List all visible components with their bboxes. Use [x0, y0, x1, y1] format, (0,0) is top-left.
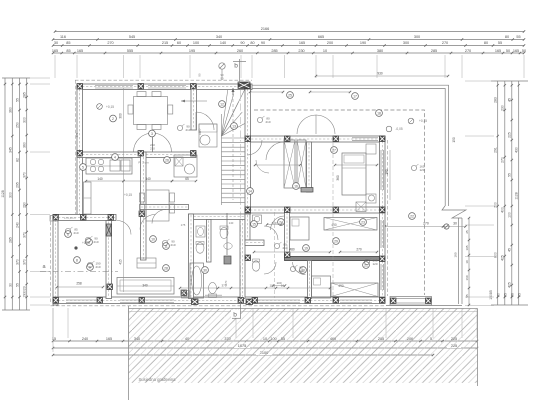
svg-text:80: 80 — [505, 35, 509, 39]
svg-text:90: 90 — [198, 73, 202, 77]
svg-text:165: 165 — [77, 49, 83, 53]
svg-text:P: 3 cm: P: 3 cm — [138, 161, 149, 165]
svg-text:55: 55 — [516, 35, 520, 39]
svg-text:18: 18 — [377, 111, 381, 115]
lower-left room wall — [106, 221, 112, 299]
entrance arrow — [232, 88, 234, 95]
svg-text:100: 100 — [269, 284, 274, 288]
svg-text:10: 10 — [323, 49, 327, 53]
wardrobe2 — [331, 283, 378, 297]
svg-text:L=6,10 m: L=6,10 m — [64, 216, 76, 220]
svg-text:270: 270 — [501, 157, 505, 163]
hall wall vertical — [240, 214, 245, 299]
svg-text:370: 370 — [16, 259, 20, 265]
dimension extension lines — [30, 55, 524, 352]
svg-text:285: 285 — [8, 237, 12, 243]
roof overhang dashed line — [254, 110, 425, 295]
svg-text:210: 210 — [95, 265, 100, 269]
svg-text:160: 160 — [465, 275, 469, 280]
svg-text:120: 120 — [419, 168, 424, 172]
svg-text:65: 65 — [185, 177, 189, 181]
svg-text:340: 340 — [142, 284, 148, 288]
svg-text:210: 210 — [265, 120, 270, 124]
svg-text:56: 56 — [510, 293, 514, 297]
utility L wall v — [245, 214, 250, 240]
shelf lower-left — [50, 216, 58, 222]
svg-text:55: 55 — [503, 293, 507, 297]
svg-text:55: 55 — [16, 283, 20, 287]
svg-text:165: 165 — [495, 49, 501, 53]
svg-text:270: 270 — [423, 222, 429, 226]
svg-text:28: 28 — [164, 266, 168, 270]
svg-text:100: 100 — [271, 221, 276, 225]
svg-text:380: 380 — [377, 49, 383, 53]
double door living — [134, 133, 172, 152]
left dimension rulers — [1, 78, 30, 310]
svg-text:b: b — [233, 312, 237, 319]
svg-text:230: 230 — [298, 49, 304, 53]
svg-text:b: b — [234, 63, 238, 70]
closet wall — [307, 142, 312, 192]
svg-text:665: 665 — [318, 35, 324, 39]
svg-text:480: 480 — [289, 248, 295, 252]
svg-text:340: 340 — [145, 177, 151, 181]
svg-text:210: 210 — [185, 128, 190, 132]
top dimension rulers — [52, 27, 526, 54]
svg-text:295: 295 — [16, 182, 20, 188]
svg-text:240: 240 — [16, 222, 20, 228]
outer face line left upper — [75, 80, 77, 214]
outer face line bottom — [51, 305, 387, 307]
svg-text:29: 29 — [334, 239, 338, 243]
svg-text:55: 55 — [465, 294, 469, 298]
svg-text:3: 3 — [151, 132, 153, 136]
svg-text:2166: 2166 — [261, 27, 269, 31]
svg-text:90: 90 — [261, 41, 265, 45]
svg-text:800: 800 — [494, 252, 498, 258]
kitchen cabinet strip — [84, 182, 92, 214]
stair west wall — [191, 84, 197, 130]
svg-text:340: 340 — [216, 35, 222, 39]
closet tall 2 — [297, 140, 306, 188]
svg-text:100: 100 — [198, 128, 202, 133]
svg-text:12: 12 — [220, 102, 224, 106]
wc2 sink — [224, 243, 232, 249]
svg-text:14: 14 — [248, 189, 252, 193]
svg-text:300: 300 — [414, 35, 420, 39]
svg-text:490: 490 — [331, 223, 337, 227]
windows — [66, 86, 384, 303]
svg-text:250: 250 — [16, 122, 20, 128]
bath divider — [207, 220, 212, 263]
svg-text:193023: 193023 — [23, 286, 27, 297]
outer face line top — [75, 79, 252, 81]
bath top wall — [189, 214, 246, 220]
svg-text:80: 80 — [484, 41, 488, 45]
svg-text:165: 165 — [513, 49, 519, 53]
svg-text:930: 930 — [377, 72, 383, 76]
terrace boundary — [252, 85, 470, 306]
dark shower block — [224, 256, 231, 264]
svg-text:55: 55 — [517, 293, 521, 297]
svg-text:490: 490 — [338, 284, 344, 288]
svg-text:270: 270 — [442, 41, 448, 45]
utility wc — [252, 261, 260, 271]
svg-text:90: 90 — [240, 41, 244, 45]
wc2 toilet — [220, 228, 228, 239]
svg-text:30: 30 — [496, 293, 500, 297]
utility L wall h — [245, 240, 264, 246]
desk middle room — [137, 258, 156, 268]
svg-text:285: 285 — [23, 92, 27, 98]
bedroom1 west wall — [285, 212, 290, 257]
svg-text:140: 140 — [97, 177, 103, 181]
reference dashed line — [274, 212, 276, 298]
svg-text:370: 370 — [75, 132, 79, 137]
svg-text:1128: 1128 — [1, 190, 5, 197]
svg-text:17: 17 — [353, 94, 357, 98]
svg-text:400: 400 — [501, 207, 505, 213]
svg-text:25: 25 — [465, 230, 469, 234]
wall columns — [53, 82, 385, 305]
sofa — [117, 278, 174, 295]
svg-text:210: 210 — [282, 246, 287, 250]
boiler circle2 — [369, 195, 375, 201]
svg-text:25: 25 — [288, 93, 292, 97]
kitchen counter — [86, 158, 132, 174]
svg-text:80: 80 — [250, 41, 254, 45]
bath divider 2 — [226, 213, 228, 255]
door swing arcs — [117, 112, 335, 275]
bath toilet2 — [209, 283, 217, 294]
svg-text:270: 270 — [107, 41, 113, 45]
svg-text:300: 300 — [8, 192, 12, 198]
svg-text:23: 23 — [361, 220, 365, 224]
svg-text:370: 370 — [23, 232, 27, 238]
svg-text:50: 50 — [506, 49, 510, 53]
svg-text:82: 82 — [16, 158, 20, 162]
wardrobe1 — [324, 218, 377, 231]
svg-text:13: 13 — [232, 124, 236, 128]
section marker b bottom — [231, 300, 241, 319]
svg-text:-0,05: -0,05 — [395, 127, 402, 131]
svg-text:55: 55 — [508, 173, 512, 177]
svg-text:+0,15: +0,15 — [106, 105, 114, 109]
svg-text:240: 240 — [82, 337, 88, 341]
left wall upper — [77, 84, 83, 216]
left wall lower — [53, 215, 58, 306]
svg-text:85: 85 — [66, 49, 70, 53]
svg-text:16: 16 — [294, 184, 298, 188]
bath toilet — [196, 243, 204, 254]
room number circles — [65, 92, 416, 274]
svg-text:175: 175 — [181, 223, 186, 227]
section marker a — [40, 264, 118, 272]
svg-text:165: 165 — [299, 41, 305, 45]
stair east wall — [245, 84, 251, 214]
svg-text:+0,15: +0,15 — [124, 193, 132, 197]
bedrooms divider H5 — [285, 257, 385, 261]
svg-text:45: 45 — [508, 248, 512, 252]
nightstands — [366, 144, 376, 154]
lower table — [140, 190, 175, 221]
svg-text:22: 22 — [410, 214, 414, 218]
svg-text:165: 165 — [106, 337, 112, 341]
bed top-right — [342, 153, 366, 195]
svg-text:55: 55 — [498, 41, 502, 45]
reference dashed line 2 — [332, 142, 334, 296]
svg-text:190: 190 — [360, 41, 366, 45]
svg-text:370: 370 — [23, 259, 27, 265]
svg-text:100: 100 — [508, 212, 512, 218]
outer face line right — [386, 140, 388, 296]
svg-text:345: 345 — [8, 147, 12, 153]
right wall — [380, 136, 386, 297]
right dimension rulers — [489, 81, 528, 305]
svg-text:116: 116 — [60, 35, 66, 39]
svg-text:15: 15 — [52, 337, 56, 341]
bath left wall — [189, 214, 194, 299]
svg-text:270: 270 — [356, 248, 362, 252]
svg-text:19: 19 — [304, 246, 308, 250]
svg-text:4: 4 — [114, 155, 116, 159]
bedroom2 west wall — [308, 261, 312, 299]
neighbouring building hatched area — [129, 306, 478, 400]
svg-text:5: 5 — [82, 165, 84, 169]
svg-text:210: 210 — [298, 269, 303, 273]
svg-text:195: 195 — [189, 49, 195, 53]
svg-text:285: 285 — [431, 49, 437, 53]
svg-text:85: 85 — [66, 41, 70, 45]
svg-text:6: 6 — [67, 232, 69, 236]
svg-text:45: 45 — [508, 98, 512, 102]
kitchen boiler closet — [174, 155, 197, 177]
svg-text:430: 430 — [515, 147, 519, 153]
svg-text:260: 260 — [237, 49, 243, 53]
svg-text:120: 120 — [372, 262, 377, 266]
dark wall segment — [106, 224, 112, 236]
svg-text:700: 700 — [494, 202, 498, 208]
svg-text:210: 210 — [170, 243, 175, 247]
svg-text:165: 165 — [52, 49, 58, 53]
svg-text:15085: 15085 — [489, 290, 493, 300]
svg-text:180: 180 — [454, 252, 458, 257]
svg-text:21: 21 — [364, 263, 368, 267]
door spec labels — [65, 116, 424, 273]
bottom wall — [53, 297, 385, 304]
svg-text:60: 60 — [177, 41, 181, 45]
svg-text:360: 360 — [23, 142, 27, 148]
svg-text:360: 360 — [8, 107, 12, 113]
staircase — [222, 90, 245, 205]
svg-text:270: 270 — [465, 49, 471, 53]
closet lintel — [301, 188, 313, 193]
bed lower — [312, 276, 331, 298]
svg-text:300: 300 — [23, 117, 27, 123]
svg-text:210: 210 — [73, 231, 78, 235]
section line b dashdot — [240, 90, 242, 300]
svg-text:24: 24 — [279, 220, 283, 224]
svg-text:210: 210 — [150, 147, 155, 151]
svg-text:283: 283 — [494, 97, 498, 103]
section marker b top — [198, 59, 247, 133]
dining table upper — [128, 92, 173, 130]
svg-text:545: 545 — [129, 35, 135, 39]
svg-text:180: 180 — [385, 169, 389, 175]
corridor south wall — [140, 205, 189, 210]
lower-left step wall — [53, 215, 116, 221]
svg-text:55: 55 — [16, 98, 20, 102]
svg-text:8: 8 — [76, 258, 78, 262]
svg-text:291: 291 — [494, 147, 498, 153]
svg-text:215: 215 — [162, 41, 168, 45]
svg-text:30: 30 — [453, 222, 457, 226]
interior wall kitchen divider — [77, 152, 196, 158]
svg-text:258: 258 — [76, 282, 82, 286]
svg-text:370: 370 — [23, 172, 27, 178]
svg-text:290: 290 — [23, 202, 27, 208]
internal dimension lines — [56, 88, 390, 292]
bathtub — [190, 263, 204, 298]
svg-text:140: 140 — [220, 41, 226, 45]
utility washer — [253, 215, 262, 224]
bedroom top wall — [250, 136, 385, 142]
svg-text:140: 140 — [229, 221, 234, 225]
svg-text:300: 300 — [403, 41, 409, 45]
svg-text:300: 300 — [119, 113, 123, 119]
svg-text:10: 10 — [465, 260, 469, 264]
top wall — [77, 84, 252, 90]
svg-text:50: 50 — [522, 49, 526, 53]
svg-text:415: 415 — [119, 259, 123, 265]
bed middle — [290, 217, 309, 240]
svg-text:2: 2 — [112, 117, 114, 121]
entrance threshold — [205, 294, 222, 296]
svg-text:285: 285 — [271, 49, 277, 53]
svg-text:11: 11 — [164, 244, 168, 248]
svg-text:555: 555 — [127, 49, 133, 53]
bottom dimension rulers — [52, 337, 478, 357]
svg-text:30: 30 — [8, 283, 12, 287]
svg-text:1128: 1128 — [515, 192, 519, 199]
svg-text:15: 15 — [252, 222, 256, 226]
outer face line left lower — [50, 216, 52, 303]
level labels — [82, 104, 427, 245]
center vertical wall — [141, 152, 147, 260]
svg-text:425: 425 — [508, 282, 512, 288]
svg-text:150: 150 — [452, 137, 456, 143]
svg-text:425: 425 — [501, 255, 505, 261]
svg-text:195: 195 — [465, 245, 469, 250]
svg-text:10: 10 — [151, 237, 155, 241]
terrace top dim — [316, 75, 448, 77]
svg-text:90: 90 — [220, 77, 224, 81]
svg-text:230: 230 — [501, 105, 505, 111]
svg-text:30: 30 — [54, 41, 58, 45]
svg-text:30: 30 — [203, 268, 207, 272]
svg-text:360: 360 — [336, 175, 340, 181]
svg-text:100: 100 — [276, 281, 281, 285]
closet tall 1 — [284, 140, 295, 188]
washer square — [356, 202, 366, 212]
svg-text:Susjedna građevina: Susjedna građevina — [138, 377, 176, 382]
svg-text:210: 210 — [93, 240, 98, 244]
svg-text:+0,15: +0,15 — [419, 119, 427, 123]
svg-text:27: 27 — [332, 148, 336, 152]
svg-text:26: 26 — [165, 158, 169, 162]
washer2 — [182, 291, 190, 299]
bedrooms top wall H4 — [245, 207, 385, 213]
svg-text:200: 200 — [327, 41, 333, 45]
svg-text:100: 100 — [193, 41, 199, 45]
bath sink — [196, 226, 205, 237]
svg-text:670: 670 — [224, 280, 228, 285]
svg-text:225: 225 — [508, 132, 512, 138]
